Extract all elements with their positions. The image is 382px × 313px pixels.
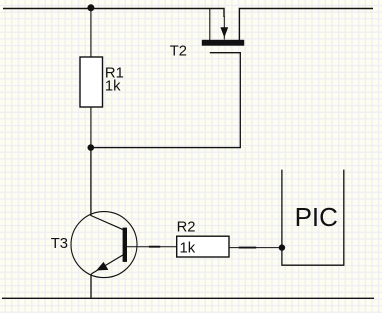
wire T2 lower plate down to mid rail: [239, 52, 241, 148]
svg-text:R2: R2: [177, 220, 196, 236]
resistor R2 body: [177, 236, 229, 257]
T3 emitter arrow head: [96, 262, 108, 271]
transistor T3 base bar: [123, 228, 127, 262]
junction node at mid rail / R1 bottom: [88, 144, 95, 151]
svg-text:1k: 1k: [105, 78, 121, 94]
T3 emitter diagonal: [91, 255, 123, 274]
transistor T2 lower plate: [210, 52, 241, 54]
wire top rail right segment: [239, 9, 373, 41]
wire junction down to T3 collector: [90, 148, 92, 216]
net segment on base wire: [149, 246, 160, 248]
svg-text:1k: 1k: [180, 240, 196, 256]
resistor R1 body: [80, 57, 103, 107]
wire T3 base to R2: [127, 246, 177, 248]
light arrow head pointing down at T2: [220, 27, 228, 37]
wire R1 top lead: [90, 9, 92, 58]
wire bottom rail (ground): [2, 297, 374, 299]
junction node at PIC pin: [279, 244, 285, 250]
wire R1 bottom lead: [90, 107, 92, 148]
svg-text:T3: T3: [51, 236, 68, 252]
junction node at top rail / R1: [87, 4, 94, 11]
net segment on R2 output wire: [239, 247, 257, 249]
transistor T3 circle: [71, 212, 137, 278]
wire mid rail (junction to T2 branch): [91, 147, 241, 149]
wire T3 emitter lead down: [90, 274, 92, 298]
light arrow shaft into T2: [223, 16, 225, 40]
svg-text:PIC: PIC: [295, 202, 338, 232]
svg-text:T2: T2: [170, 44, 187, 60]
PIC box outline (open top): [282, 170, 344, 266]
wire R2 to PIC pin: [229, 247, 282, 249]
transistor T2 top thick bar: [202, 40, 244, 46]
T3 collector diagonal: [91, 216, 124, 230]
wire top rail left segment (V+ rail to T2 light arrow): [3, 8, 224, 17]
T2 left lead (top plate to rail): [209, 9, 211, 41]
